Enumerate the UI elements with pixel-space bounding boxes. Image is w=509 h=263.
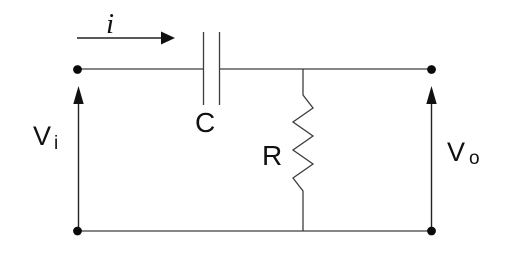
- node top-left: [73, 65, 82, 74]
- current arrow i: [77, 8, 175, 45]
- svg-text:o: o: [469, 148, 480, 169]
- svg-text:i: i: [106, 8, 114, 40]
- voltage arrow Vo: [426, 86, 479, 231]
- svg-text:i: i: [54, 133, 58, 154]
- wire top-left segment: [77, 68, 203, 70]
- node bottom-right: [427, 227, 436, 236]
- svg-text:C: C: [195, 107, 215, 138]
- node bottom-left: [73, 227, 82, 236]
- svg-text:V: V: [33, 121, 51, 151]
- wire top-right segment: [220, 68, 432, 70]
- resistor R: [262, 69, 313, 231]
- capacitor C: [195, 32, 220, 138]
- svg-text:V: V: [447, 137, 465, 167]
- voltage arrow Vi: [33, 86, 84, 231]
- wire bottom segment: [77, 230, 432, 232]
- svg-text:R: R: [262, 140, 282, 171]
- node top-right: [427, 65, 436, 74]
